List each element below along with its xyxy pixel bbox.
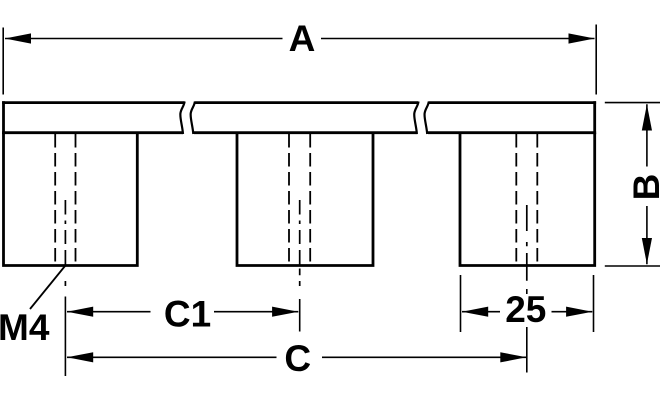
- svg-text:C: C: [284, 338, 311, 379]
- extension line post2 center: [299, 299, 301, 332]
- dimension 25 extension line right: [593, 275, 595, 332]
- dimension 25 arrow right: [566, 307, 592, 317]
- dimension B extension line top: [605, 102, 660, 104]
- dimension B arrow down: [642, 238, 652, 264]
- dimension C arrow right: [500, 352, 526, 362]
- post 3 thread hole hidden lines: [516, 134, 537, 264]
- post 2 centerline: [299, 200, 301, 286]
- svg-text:C1: C1: [164, 294, 211, 335]
- dimension B extension line bottom: [605, 265, 660, 267]
- extension line post1 center: [64, 297, 66, 377]
- post 3 outline: [459, 133, 596, 267]
- dimension 25 line: [462, 311, 592, 313]
- svg-text:A: A: [289, 18, 316, 59]
- white gap for label 25: [500, 294, 552, 327]
- svg-text:B: B: [626, 174, 660, 201]
- dimension A extension line right: [595, 25, 597, 95]
- rail right edge: [593, 101, 596, 134]
- dimension A arrow right: [569, 33, 595, 43]
- dimension 25 extension line left: [460, 275, 462, 332]
- white gap for label A: [283, 22, 322, 54]
- svg-text:25: 25: [505, 289, 546, 330]
- dimension 25 arrow left: [462, 307, 488, 317]
- post 3 centerline: [526, 205, 528, 281]
- break line left pair: [180, 102, 195, 135]
- post 2 thread hole hidden lines: [289, 134, 310, 264]
- dimension C1 arrow left: [67, 307, 93, 317]
- white gap for label C: [277, 341, 323, 374]
- dimension A extension line left: [2, 28, 4, 95]
- rail bottom edge: [2, 131, 596, 134]
- dimension B line: [646, 104, 648, 264]
- post 1 thread hole hidden lines: [55, 134, 75, 264]
- post 1 outline: [2, 133, 139, 267]
- dimension C line: [67, 356, 527, 358]
- white gap for label B: [639, 167, 655, 207]
- dimension A line: [5, 38, 595, 40]
- dimension C1 line: [67, 311, 298, 313]
- extension line post3 center: [526, 289, 528, 373]
- dimension C1 arrow right: [272, 307, 298, 317]
- svg-text:M4: M4: [0, 307, 50, 348]
- break line right pair: [414, 102, 429, 135]
- dimension A arrow left: [5, 33, 31, 43]
- post 2 outline: [236, 133, 375, 267]
- rail top edge: [2, 101, 596, 104]
- white gap for label C1: [151, 296, 215, 328]
- M4 leader line: [30, 266, 65, 309]
- dimension B arrow up: [642, 104, 652, 130]
- post 1 centerline: [64, 200, 66, 286]
- dimension C arrow left: [67, 352, 93, 362]
- rail left edge: [2, 101, 5, 134]
